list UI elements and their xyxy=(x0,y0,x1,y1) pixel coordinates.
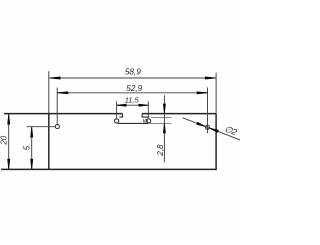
svg-text:5: 5 xyxy=(22,145,31,150)
svg-text:58,9: 58,9 xyxy=(125,67,141,76)
svg-text:11,5: 11,5 xyxy=(125,95,140,104)
svg-text:2,8: 2,8 xyxy=(156,144,165,157)
svg-text:52,9: 52,9 xyxy=(126,84,142,93)
svg-text:20: 20 xyxy=(0,135,8,145)
